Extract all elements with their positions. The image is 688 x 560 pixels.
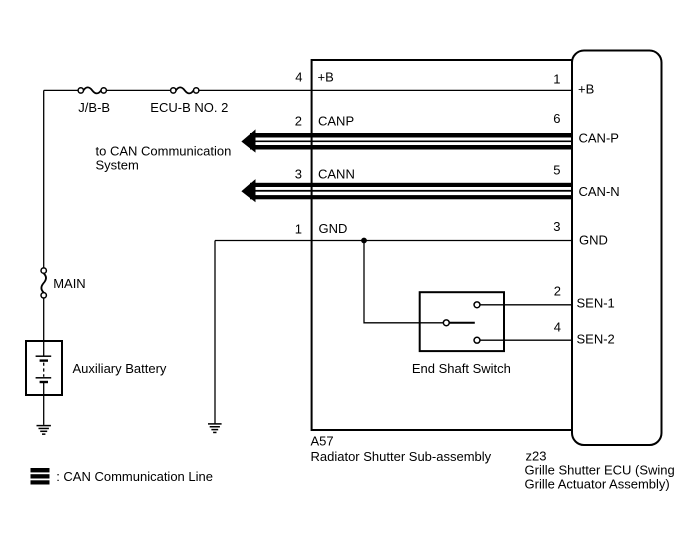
svg-text:SEN-1: SEN-1: [577, 296, 615, 311]
ECU box z23 Grille Shutter ECU: [572, 51, 662, 446]
CAN-P bus lines: [250, 133, 572, 150]
battery B1 symbol: [36, 340, 52, 396]
svg-text:Grille Actuator Assembly): Grille Actuator Assembly): [525, 477, 670, 492]
svg-text:3: 3: [295, 167, 302, 182]
svg-text:1: 1: [295, 222, 302, 237]
wire battery rail: [43, 90, 45, 340]
svg-text:MAIN: MAIN: [53, 276, 85, 291]
svg-text:Grille Shutter ECU (Swing: Grille Shutter ECU (Swing: [525, 463, 675, 478]
svg-text:J/B-B: J/B-B: [78, 100, 110, 115]
wire SEN-2: [480, 339, 572, 341]
svg-text:SEN-2: SEN-2: [577, 332, 615, 347]
svg-text:1: 1: [553, 72, 560, 87]
svg-text:5: 5: [553, 163, 560, 178]
svg-text:ECU-B NO. 2: ECU-B NO. 2: [150, 100, 228, 115]
svg-text:Auxiliary Battery: Auxiliary Battery: [73, 361, 167, 376]
wire ground drop left: [214, 241, 216, 424]
svg-text:4: 4: [554, 320, 561, 335]
wire +B horizontal: [44, 89, 572, 91]
svg-text:GND: GND: [319, 221, 348, 236]
switch pole: [443, 320, 449, 326]
svg-text:z23: z23: [526, 449, 547, 464]
CAN-N arrowhead: [241, 179, 255, 202]
switch arm: [449, 322, 474, 324]
svg-text:CANP: CANP: [318, 114, 354, 129]
junction dot: [361, 238, 367, 244]
wire GND horizontal: [215, 240, 572, 242]
fusible link ECU-B NO. 2: [171, 87, 199, 93]
svg-text:3: 3: [553, 219, 560, 234]
ground (battery): [37, 395, 51, 434]
svg-text:CAN-P: CAN-P: [579, 131, 619, 146]
svg-text:6: 6: [553, 111, 560, 126]
svg-text:System: System: [96, 157, 139, 172]
fusible link J/B-B: [78, 87, 106, 93]
svg-text:4: 4: [295, 70, 302, 85]
svg-text:GND: GND: [579, 233, 608, 248]
connector box A57 Radiator Shutter Sub-assembly: [312, 60, 572, 430]
fusible link MAIN: [41, 268, 46, 298]
svg-text:CAN-N: CAN-N: [579, 184, 620, 199]
svg-text:End Shaft Switch: End Shaft Switch: [412, 361, 511, 376]
legend CAN communication line symbol: [31, 468, 50, 485]
ground (left drop): [208, 424, 222, 433]
CAN-P arrowhead: [241, 129, 255, 152]
svg-text:2: 2: [295, 114, 302, 129]
battery box: [26, 341, 62, 395]
svg-text:CANN: CANN: [318, 167, 355, 182]
switch contact SEN-1: [474, 302, 480, 308]
switch contact SEN-2: [474, 337, 480, 343]
svg-text:+B: +B: [578, 81, 594, 96]
svg-text:: CAN Communication Line: : CAN Communication Line: [56, 469, 213, 484]
svg-text:Radiator Shutter Sub-assembly: Radiator Shutter Sub-assembly: [311, 449, 492, 464]
svg-text:+B: +B: [318, 70, 334, 85]
wire switch feed: [364, 241, 443, 323]
CAN-N bus lines: [250, 183, 572, 200]
svg-text:2: 2: [554, 284, 561, 299]
wire SEN-1: [480, 304, 572, 306]
svg-text:A57: A57: [311, 434, 334, 449]
svg-text:to CAN Communication: to CAN Communication: [96, 144, 232, 159]
switch box End Shaft Switch: [420, 292, 504, 351]
